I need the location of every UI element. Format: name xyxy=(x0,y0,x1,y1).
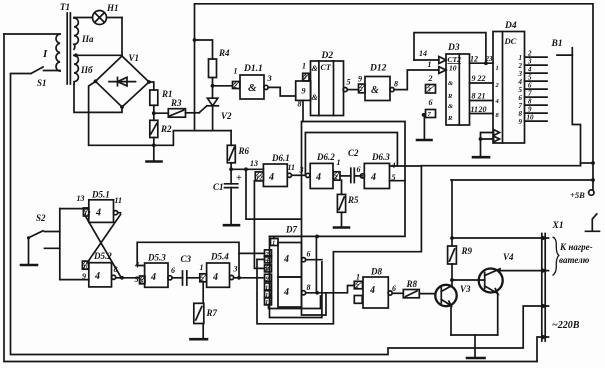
svg-text:15: 15 xyxy=(265,299,272,306)
svg-text:V2: V2 xyxy=(221,111,232,121)
svg-text:9: 9 xyxy=(302,87,306,96)
svg-text:4: 4 xyxy=(150,272,156,283)
svg-text:D6.1: D6.1 xyxy=(271,153,290,163)
svg-text:CT: CT xyxy=(321,63,332,72)
svg-text:6: 6 xyxy=(528,82,532,90)
svg-text:5: 5 xyxy=(519,86,523,94)
svg-text:6: 6 xyxy=(307,250,311,259)
svg-text:12: 12 xyxy=(265,285,272,292)
svg-text:вателю: вателю xyxy=(559,255,590,265)
svg-text:DC: DC xyxy=(504,36,517,46)
svg-text:2: 2 xyxy=(527,50,532,58)
svg-text:&: & xyxy=(371,85,379,96)
svg-text:D4: D4 xyxy=(504,21,517,31)
svg-text:9: 9 xyxy=(472,74,476,83)
svg-text:D5.4: D5.4 xyxy=(210,252,229,262)
svg-text:R6: R6 xyxy=(238,146,250,156)
svg-text:+5В: +5В xyxy=(570,190,585,200)
svg-text:IIб: IIб xyxy=(80,65,93,75)
svg-text:1: 1 xyxy=(234,67,238,76)
svg-text:&: & xyxy=(448,103,453,110)
svg-text:D12: D12 xyxy=(369,64,387,74)
svg-text:H1: H1 xyxy=(106,3,119,13)
svg-text:1: 1 xyxy=(428,60,432,69)
svg-text:8: 8 xyxy=(472,92,476,101)
svg-text:8: 8 xyxy=(519,110,523,118)
svg-text:S2: S2 xyxy=(36,213,46,223)
svg-text:1: 1 xyxy=(337,158,341,167)
svg-text:2: 2 xyxy=(428,74,433,83)
svg-text:4: 4 xyxy=(94,271,100,282)
svg-text:23: 23 xyxy=(485,55,494,63)
svg-text:2: 2 xyxy=(518,62,523,70)
svg-text:К нагре-: К нагре- xyxy=(559,242,593,252)
svg-text:9: 9 xyxy=(82,272,86,281)
svg-text:8: 8 xyxy=(114,265,118,274)
svg-text:&: & xyxy=(312,93,319,102)
svg-text:8: 8 xyxy=(307,283,311,292)
svg-text:7: 7 xyxy=(528,90,532,98)
svg-text:2: 2 xyxy=(233,83,238,90)
svg-text:R4: R4 xyxy=(218,48,230,58)
svg-text:&: & xyxy=(448,80,453,87)
svg-text:5: 5 xyxy=(392,173,396,182)
svg-text:&: & xyxy=(248,82,257,94)
svg-text:1: 1 xyxy=(519,54,523,62)
svg-text:4: 4 xyxy=(315,172,321,183)
svg-text:1: 1 xyxy=(302,62,306,71)
svg-text:R2: R2 xyxy=(160,124,172,134)
svg-text:V1: V1 xyxy=(129,53,140,63)
svg-text:13: 13 xyxy=(77,194,85,203)
svg-text:13: 13 xyxy=(265,292,272,299)
svg-text:4: 4 xyxy=(391,161,396,170)
svg-text:5: 5 xyxy=(135,275,139,284)
svg-text:D3: D3 xyxy=(447,43,460,53)
svg-text:8: 8 xyxy=(528,98,532,106)
svg-text:4: 4 xyxy=(369,285,375,296)
svg-text:22: 22 xyxy=(477,74,486,83)
svg-text:D5.3: D5.3 xyxy=(147,253,166,263)
svg-text:6: 6 xyxy=(519,94,523,102)
svg-text:11: 11 xyxy=(288,163,296,172)
svg-text:3: 3 xyxy=(267,73,273,83)
svg-text:4: 4 xyxy=(283,254,289,265)
svg-text:5: 5 xyxy=(347,78,351,87)
svg-text:6: 6 xyxy=(171,266,175,275)
svg-text:8: 8 xyxy=(298,100,302,109)
svg-text:X1: X1 xyxy=(552,221,564,231)
svg-text:4: 4 xyxy=(518,78,523,86)
svg-text:12: 12 xyxy=(470,55,478,64)
svg-text:6: 6 xyxy=(357,165,361,174)
svg-text:1: 1 xyxy=(356,273,360,282)
svg-text:D6.3: D6.3 xyxy=(371,152,390,162)
svg-text:4: 4 xyxy=(212,272,218,283)
svg-text:1: 1 xyxy=(496,65,499,72)
svg-text:T1: T1 xyxy=(60,2,70,12)
svg-text:4: 4 xyxy=(370,172,376,183)
svg-text:IIa: IIa xyxy=(81,34,94,44)
svg-text:D6.2: D6.2 xyxy=(316,152,335,162)
svg-text:4: 4 xyxy=(527,66,532,74)
svg-text:C1: C1 xyxy=(213,182,224,192)
svg-text:D5.1: D5.1 xyxy=(91,190,110,200)
svg-text:D7: D7 xyxy=(285,225,297,235)
svg-text:10: 10 xyxy=(83,264,90,271)
svg-text:V4: V4 xyxy=(503,252,514,262)
svg-text:13: 13 xyxy=(250,159,258,168)
svg-text:C3: C3 xyxy=(181,254,192,264)
svg-text:21: 21 xyxy=(477,92,486,101)
svg-text:R3: R3 xyxy=(170,98,182,108)
svg-text:7: 7 xyxy=(519,102,523,110)
svg-text:3: 3 xyxy=(233,265,238,274)
svg-text:I: I xyxy=(42,48,48,60)
svg-text:4: 4 xyxy=(95,208,101,219)
svg-text:3: 3 xyxy=(299,166,304,175)
svg-text:R9: R9 xyxy=(461,246,473,256)
svg-text:B1: B1 xyxy=(551,39,563,49)
svg-text:9: 9 xyxy=(528,106,532,114)
svg-text:12: 12 xyxy=(256,175,263,182)
svg-text:R: R xyxy=(447,115,453,122)
svg-text:S1: S1 xyxy=(37,78,47,88)
svg-text:R7: R7 xyxy=(206,308,218,318)
svg-text:9: 9 xyxy=(358,75,362,84)
svg-text:8: 8 xyxy=(394,80,398,89)
svg-text:3: 3 xyxy=(518,70,523,78)
svg-text:14: 14 xyxy=(419,49,427,58)
svg-text:R: R xyxy=(447,93,453,100)
svg-text:D1.1: D1.1 xyxy=(243,64,263,74)
svg-text:&: & xyxy=(312,64,319,73)
svg-text:11: 11 xyxy=(115,196,123,205)
svg-text:D2: D2 xyxy=(321,51,334,61)
svg-text:C2: C2 xyxy=(348,148,359,158)
svg-text:20: 20 xyxy=(478,105,487,114)
svg-text:5: 5 xyxy=(528,74,532,82)
svg-text:D8: D8 xyxy=(370,267,382,277)
svg-text:+: + xyxy=(236,173,242,184)
svg-text:10: 10 xyxy=(449,64,457,73)
svg-text:4: 4 xyxy=(134,261,139,270)
svg-text:6: 6 xyxy=(429,98,433,107)
svg-text:12: 12 xyxy=(84,210,91,217)
svg-text:6: 6 xyxy=(392,284,396,293)
svg-text:4: 4 xyxy=(268,172,274,183)
svg-text:10: 10 xyxy=(527,114,535,122)
svg-text:D5.2: D5.2 xyxy=(93,251,112,261)
svg-text:4: 4 xyxy=(283,287,289,298)
svg-text:3: 3 xyxy=(527,58,532,66)
svg-text:~220В: ~220В xyxy=(552,320,580,331)
svg-text:1: 1 xyxy=(200,263,204,272)
svg-text:R8: R8 xyxy=(406,279,418,289)
svg-text:1: 1 xyxy=(272,240,275,247)
svg-text:11: 11 xyxy=(471,105,479,114)
svg-text:V3: V3 xyxy=(460,284,471,294)
svg-text:R5: R5 xyxy=(347,195,359,205)
svg-text:9: 9 xyxy=(519,118,523,126)
